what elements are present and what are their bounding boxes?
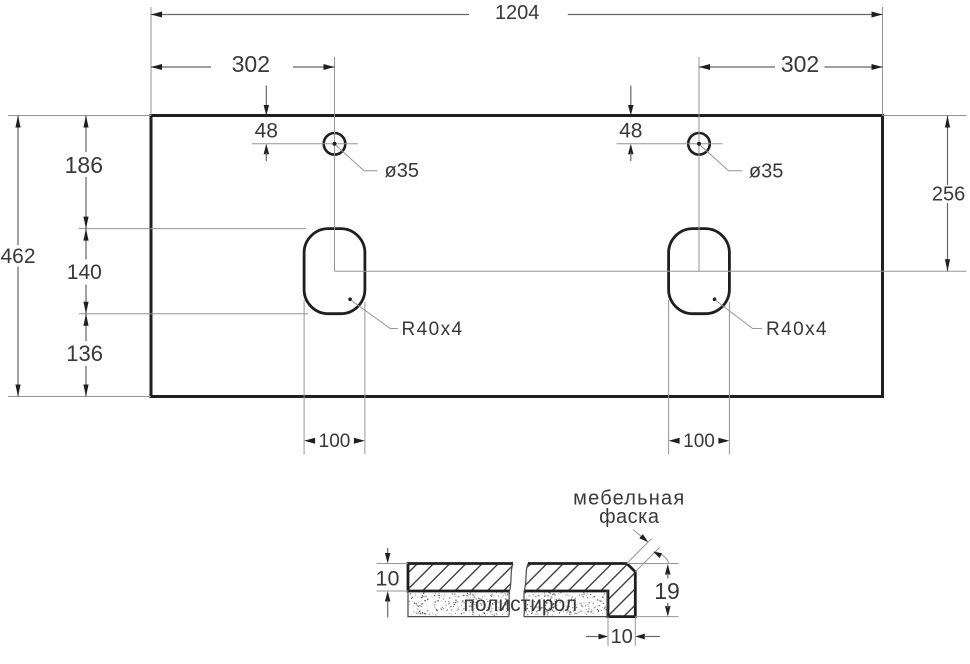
- label мебельная фаска: [573, 488, 685, 529]
- svg-text:48: 48: [619, 120, 642, 143]
- svg-text:462: 462: [0, 245, 35, 268]
- svg-text:302: 302: [232, 51, 270, 77]
- extension line top edge to right margin (256): [883, 115, 967, 117]
- dimension 1204 top: [151, 2, 883, 24]
- svg-text:ø35: ø35: [385, 160, 419, 182]
- hole center dots (redrawn on top): [333, 142, 702, 146]
- dimension 140: [67, 229, 102, 314]
- extension line 48 left (through hole center): [252, 143, 358, 145]
- centerline vertical left hole: [334, 57, 336, 271]
- cutout right (R40x4 rounded slot): [669, 229, 730, 314]
- svg-text:10: 10: [376, 567, 400, 591]
- dimension 100 right cutout: [669, 431, 730, 452]
- section slab left piece (hatched): [305, 540, 555, 660]
- svg-text:R40x4: R40x4: [766, 319, 828, 340]
- extension line top-left corner vertical: [150, 7, 152, 116]
- svg-text:136: 136: [66, 341, 103, 366]
- dimension 136: [66, 314, 103, 397]
- dimension 186: [65, 116, 103, 229]
- dimension 462 left overall: [0, 116, 35, 397]
- dimension 48 left: [255, 86, 278, 162]
- cutout left (R40x4 rounded slot): [304, 229, 365, 314]
- polystyrene strip left piece (stippled): [408, 591, 510, 617]
- panel outline: [151, 116, 883, 397]
- svg-text:фаска: фаска: [599, 506, 660, 528]
- dimension 10 section bottom: [586, 617, 660, 648]
- svg-text:302: 302: [781, 51, 819, 77]
- svg-text:48: 48: [255, 120, 278, 143]
- svg-text:полистирол: полистирол: [464, 593, 578, 616]
- leader and label ø35 right: [701, 146, 784, 183]
- svg-text:140: 140: [67, 261, 102, 284]
- svg-text:100: 100: [319, 431, 351, 452]
- svg-text:186: 186: [65, 152, 103, 178]
- dimension 302 right: [699, 51, 883, 77]
- leader and label R40x4 left: [348, 297, 463, 340]
- polystyrene label: [464, 593, 578, 616]
- dimension 19 section right: [627, 564, 680, 617]
- svg-text:100: 100: [683, 431, 715, 452]
- dimension 48 right: [619, 86, 642, 162]
- faucet hole left (ø35 circle): [324, 133, 346, 155]
- leader and label R40x4 right: [713, 297, 828, 340]
- centerline horizontal through cutout centers to right margin: [335, 270, 967, 272]
- dimension 302 left: [151, 51, 335, 77]
- extension line cutout bottom (313 level): [79, 313, 308, 315]
- extension line top edge to left margin: [8, 115, 151, 117]
- extension lines cutout left for 100: [304, 300, 365, 455]
- extension line cutout top (186 level): [79, 228, 306, 230]
- svg-text:ø35: ø35: [749, 160, 783, 182]
- leader and label ø35 left: [336, 146, 419, 183]
- chamfer extension lines (45 deg): [627, 539, 660, 572]
- extension line 48 right (through hole center): [617, 143, 723, 145]
- svg-text:1204: 1204: [495, 2, 540, 24]
- leader мебельная фаска: [633, 530, 648, 543]
- section slab right piece with edge bar (hatched): [418, 540, 700, 660]
- faucet hole right (ø35 circle): [688, 133, 710, 155]
- svg-text:R40x4: R40x4: [402, 319, 464, 340]
- dimension 256 right: [932, 116, 965, 272]
- chamfer angle arc: [653, 552, 669, 563]
- extension line bottom edge to left margin: [8, 396, 151, 398]
- extension lines cutout right for 100: [669, 300, 730, 455]
- svg-text:10: 10: [611, 626, 633, 648]
- extension line top-right corner vertical: [882, 7, 884, 116]
- dimension 10 section left: [376, 548, 408, 618]
- centerline vertical right hole: [698, 57, 700, 271]
- polystyrene strip right piece (stippled): [524, 591, 607, 617]
- svg-text:256: 256: [932, 184, 965, 206]
- svg-text:19: 19: [654, 578, 680, 604]
- dimension 100 left cutout: [304, 431, 365, 452]
